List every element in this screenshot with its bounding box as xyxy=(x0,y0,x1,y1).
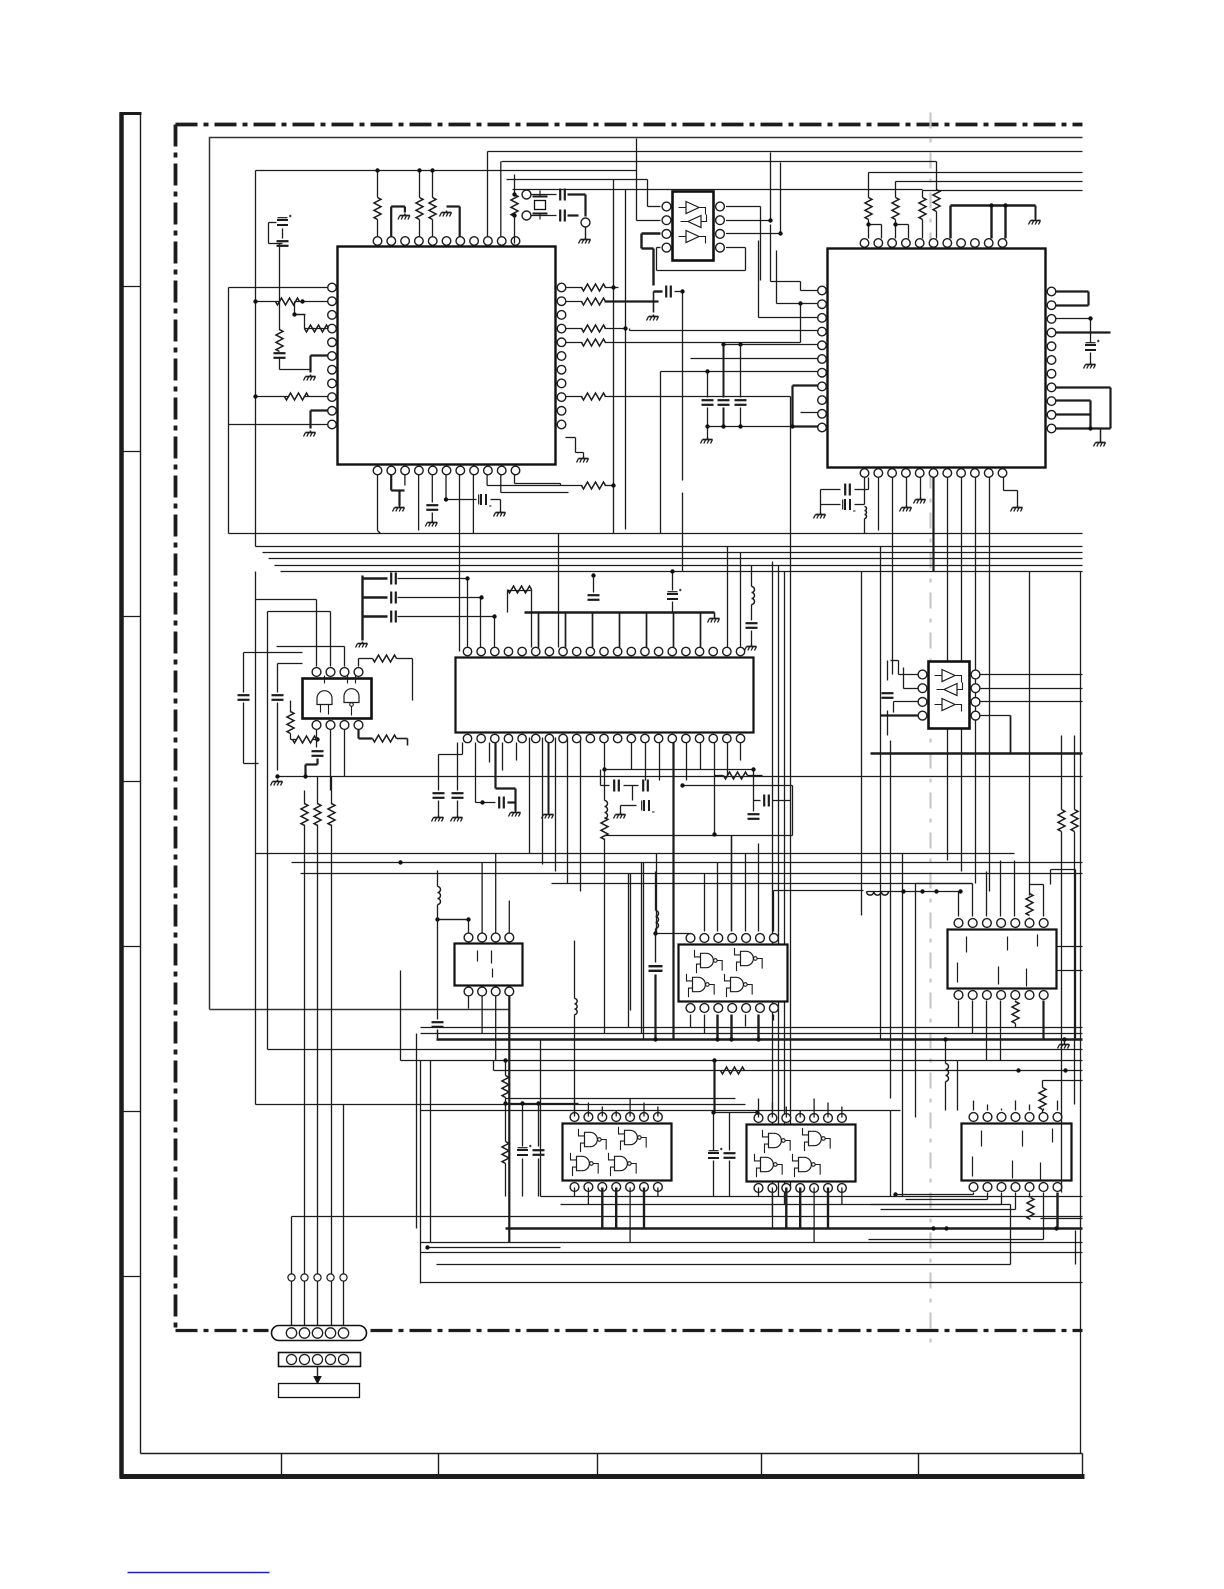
resistor R19 xyxy=(508,586,532,593)
IC U5 body xyxy=(929,662,970,729)
capacitor C25 xyxy=(666,286,671,298)
IC U9 marks xyxy=(958,935,1038,987)
resistor R33 xyxy=(1039,1081,1046,1113)
resistor R11 xyxy=(582,325,626,332)
resistor R37 xyxy=(721,1067,745,1074)
wire xyxy=(481,863,483,933)
wire xyxy=(948,478,990,892)
capacitor C32 xyxy=(724,1113,736,1197)
node xyxy=(1016,1068,1067,1072)
wire xyxy=(728,547,741,648)
ground xyxy=(494,511,506,517)
wire thick xyxy=(932,478,934,572)
wire xyxy=(515,475,561,486)
wire xyxy=(506,1103,579,1105)
test point xyxy=(522,190,531,199)
ground xyxy=(745,645,757,651)
wire xyxy=(799,1188,801,1229)
ground xyxy=(577,457,589,463)
bottom ruler tick 5 xyxy=(918,1454,920,1477)
wire thick xyxy=(716,1015,718,1040)
ground xyxy=(393,506,405,512)
resistor R10 xyxy=(582,298,606,305)
ground xyxy=(542,813,554,819)
wire xyxy=(707,427,709,438)
IC U9 body xyxy=(948,930,1057,989)
wire xyxy=(566,396,583,398)
node xyxy=(943,1037,947,1041)
wire xyxy=(437,905,439,1020)
wire thick xyxy=(757,1015,759,1040)
wire xyxy=(904,668,918,689)
capacitor C30 xyxy=(533,1104,545,1197)
wire xyxy=(691,358,818,360)
node xyxy=(653,931,657,935)
IC U6 top pins xyxy=(312,668,363,677)
wire thick xyxy=(306,759,318,777)
IC U9 top pins xyxy=(954,919,1048,928)
dash-dot frame bottom right xyxy=(371,1329,1083,1332)
wire xyxy=(359,659,373,667)
wire xyxy=(619,613,621,648)
IC U1 left pins xyxy=(328,283,337,429)
wire rail xyxy=(494,1061,1083,1071)
wire xyxy=(773,1015,775,1021)
wire xyxy=(827,1188,829,1229)
wire xyxy=(516,743,518,761)
wire xyxy=(514,175,516,191)
node xyxy=(893,1192,1058,1230)
wire low xyxy=(401,1060,1083,1062)
wire xyxy=(566,287,583,289)
IC U5 left pins xyxy=(918,670,927,720)
wire xyxy=(490,743,503,771)
wire vert xyxy=(542,738,544,865)
wire xyxy=(643,1188,645,1229)
IC U6 gate B xyxy=(344,676,359,716)
node xyxy=(1088,316,1092,320)
wire xyxy=(621,786,637,806)
electrolytic C22 xyxy=(642,800,655,812)
wire cap feed xyxy=(398,616,495,618)
capacitor C36 xyxy=(238,653,303,764)
capacitor C9 xyxy=(821,478,869,496)
IC U5 right pins xyxy=(971,670,980,720)
node xyxy=(611,285,615,289)
wire xyxy=(1004,478,1018,506)
wire xyxy=(936,162,938,191)
page bar tick 3 xyxy=(120,616,141,618)
wire thick xyxy=(508,789,516,811)
wire mid xyxy=(256,853,1015,855)
wire xyxy=(432,171,434,237)
wire xyxy=(785,1188,787,1229)
wire vert xyxy=(636,139,638,171)
wire xyxy=(895,182,897,198)
IC U3 top pins xyxy=(463,647,744,655)
wire xyxy=(295,302,306,315)
wire xyxy=(630,329,818,331)
wire xyxy=(841,1188,843,1205)
wire xyxy=(487,152,489,237)
IC U4 right pins xyxy=(716,202,725,252)
wire xyxy=(1015,1101,1017,1111)
wire xyxy=(713,1161,715,1197)
wire bottom xyxy=(421,1252,1083,1254)
wire xyxy=(269,244,283,331)
wire xyxy=(758,844,760,932)
inductor L3 xyxy=(438,871,441,905)
wire xyxy=(566,342,583,344)
wire xyxy=(468,997,470,1009)
node xyxy=(444,497,448,501)
resistor R22 xyxy=(373,655,413,701)
wire thick xyxy=(1056,292,1089,306)
wire xyxy=(330,730,332,791)
dash-dot frame top xyxy=(176,123,1083,127)
wire thick xyxy=(447,207,460,237)
wire bus xyxy=(229,533,1083,535)
wire thick xyxy=(731,836,733,932)
connector CN2 shell xyxy=(279,1353,361,1367)
wire mid xyxy=(867,891,959,893)
wire thick xyxy=(713,1061,715,1113)
ground xyxy=(647,315,659,321)
node xyxy=(866,222,870,226)
wire thick xyxy=(391,475,404,506)
wire xyxy=(661,372,818,534)
wire xyxy=(708,426,793,428)
resistor R26 xyxy=(301,791,308,826)
node xyxy=(512,192,516,217)
inductor L1 xyxy=(752,566,755,605)
wire mid xyxy=(438,919,469,921)
wire xyxy=(532,195,557,216)
wire thick xyxy=(548,743,550,813)
wire vert xyxy=(228,288,230,534)
wire vert xyxy=(643,863,645,1039)
IC U12 marks xyxy=(973,1129,1053,1181)
wire xyxy=(894,702,918,713)
IC U4 gate A xyxy=(679,202,706,215)
wire xyxy=(785,1107,787,1118)
wire xyxy=(585,228,587,238)
IC U7 mark xyxy=(478,951,493,978)
node xyxy=(465,576,496,618)
wire xyxy=(604,743,606,801)
wire low thick xyxy=(437,1038,1083,1041)
node xyxy=(901,889,962,893)
IC U2 left pins xyxy=(818,286,827,432)
wire thick xyxy=(508,997,510,1243)
resistor R14 xyxy=(582,482,614,489)
capacitor C33 xyxy=(702,372,714,427)
wire rail xyxy=(256,170,637,172)
capacitor C2 xyxy=(560,210,565,222)
wire xyxy=(726,163,781,234)
wire vert xyxy=(1075,870,1077,1041)
wire xyxy=(704,874,706,932)
page bar tick 6 xyxy=(120,1111,141,1113)
wire xyxy=(419,171,421,237)
node xyxy=(253,394,257,398)
wire xyxy=(916,884,973,917)
wire xyxy=(657,1188,659,1197)
ground xyxy=(1094,441,1106,447)
wire xyxy=(957,1061,959,1111)
wire xyxy=(1029,1193,1031,1198)
capacitor C19 xyxy=(499,797,504,809)
resistor R23 xyxy=(287,701,294,740)
IC U11 top pins xyxy=(754,1114,846,1123)
page edge inner line xyxy=(140,113,142,1454)
wire rail xyxy=(896,181,1083,183)
capacitor C27 xyxy=(312,751,324,756)
wire vert xyxy=(772,562,774,1229)
wire xyxy=(726,247,746,249)
wire xyxy=(438,920,469,933)
node xyxy=(715,1037,760,1041)
wire xyxy=(981,674,1083,676)
wire xyxy=(378,475,381,534)
wire vert xyxy=(267,612,269,1050)
wire thick xyxy=(311,356,328,373)
IC U4 body xyxy=(673,192,714,261)
capacitor C37 xyxy=(272,664,303,771)
node xyxy=(480,800,484,804)
wire xyxy=(687,743,701,781)
ground xyxy=(1011,506,1023,512)
wire vert xyxy=(1080,572,1082,1454)
wire xyxy=(981,701,1083,703)
wire xyxy=(629,1188,631,1243)
IC U6 bottom pins xyxy=(312,721,363,730)
IC U10 gate 1 xyxy=(579,1129,607,1152)
wire mid xyxy=(301,873,1083,875)
wire xyxy=(887,661,889,736)
IC U8 body xyxy=(679,945,788,1002)
node xyxy=(503,1058,507,1105)
wire xyxy=(487,475,560,486)
wire xyxy=(643,1103,645,1117)
resistor R1 xyxy=(374,198,381,220)
wire xyxy=(620,806,622,813)
resistor R16 xyxy=(892,198,899,220)
IC U7 body xyxy=(455,944,523,986)
wire thick xyxy=(605,300,659,302)
wire vert xyxy=(613,180,615,534)
wire xyxy=(724,344,818,346)
wire xyxy=(758,1188,760,1197)
wire xyxy=(771,1188,773,1217)
node xyxy=(1088,426,1092,430)
node xyxy=(623,326,627,330)
wire xyxy=(1043,1193,1045,1240)
node xyxy=(611,483,615,487)
wire xyxy=(476,743,496,803)
wire xyxy=(841,1107,843,1118)
IC U10 body xyxy=(563,1124,672,1181)
wire vert xyxy=(567,738,569,884)
IC U6 gate A xyxy=(317,676,332,715)
wire thick xyxy=(793,386,818,427)
wire xyxy=(400,971,402,1061)
wire vert xyxy=(580,738,582,892)
wire thick xyxy=(1056,429,1111,441)
wire xyxy=(986,1001,988,1061)
IC U2 top pins xyxy=(860,239,1007,248)
electrolytic C3 xyxy=(277,215,292,225)
wire xyxy=(690,1015,692,1028)
wire thick xyxy=(951,206,1036,239)
wire bus xyxy=(263,552,1083,554)
wire xyxy=(801,412,818,414)
wire xyxy=(728,743,741,776)
IC U9 bottom pins xyxy=(954,991,1048,1000)
wire vert xyxy=(682,493,684,572)
wire xyxy=(714,743,716,835)
wire cap feed xyxy=(398,597,482,599)
IC U3 body xyxy=(456,658,754,733)
wire mid xyxy=(605,835,793,837)
connector pad ring xyxy=(288,1274,295,1281)
wire xyxy=(377,171,379,237)
wire xyxy=(629,1099,631,1117)
dash-dot frame left xyxy=(174,125,178,1330)
wire xyxy=(714,613,716,617)
resistor R6 xyxy=(305,325,329,332)
dash-dot frame bottom left xyxy=(176,1329,269,1332)
page bar tick 1 xyxy=(120,286,141,288)
ground xyxy=(1084,363,1096,369)
wire rail xyxy=(502,161,937,163)
wire xyxy=(566,328,583,330)
wire bottom thick xyxy=(506,1227,1083,1229)
inductor L9 xyxy=(865,507,867,534)
page bar tick 5 xyxy=(120,946,141,948)
wire cap feed xyxy=(398,578,469,580)
node xyxy=(721,342,742,346)
wire vert xyxy=(630,874,632,1011)
fold line xyxy=(929,113,931,1346)
wire xyxy=(615,1188,617,1229)
wire thick xyxy=(1035,206,1037,219)
wire xyxy=(1057,946,1083,948)
wire xyxy=(1030,885,1044,917)
footer link xyxy=(128,1572,270,1574)
wire thick xyxy=(1056,388,1111,429)
resistor R15 xyxy=(865,198,872,220)
wire rail xyxy=(513,189,923,191)
wire xyxy=(745,1015,747,1027)
wire thick xyxy=(1056,331,1111,333)
resistor R30 xyxy=(1012,1001,1019,1028)
node xyxy=(705,369,709,373)
wire xyxy=(813,1099,815,1118)
wire xyxy=(657,248,746,271)
inductor L7 xyxy=(575,941,578,1113)
wire xyxy=(1056,1193,1058,1229)
wire xyxy=(868,173,870,225)
connector CN2 pins xyxy=(287,1355,349,1365)
wire vert xyxy=(430,1061,432,1243)
wire vert xyxy=(784,572,786,1205)
capacitor C34 xyxy=(718,345,730,427)
wire bottom xyxy=(292,1216,1083,1218)
wire xyxy=(538,613,540,648)
ground xyxy=(814,513,826,519)
wire xyxy=(574,1188,576,1197)
wire xyxy=(1001,1109,1003,1111)
label box xyxy=(279,1384,360,1398)
electrolytic C15 xyxy=(667,572,682,613)
wire low xyxy=(421,1033,1083,1035)
wire thick xyxy=(496,743,516,789)
wire xyxy=(682,786,793,836)
wire xyxy=(540,1040,542,1197)
wire low xyxy=(506,1098,736,1100)
wire xyxy=(986,872,988,917)
wire xyxy=(1043,1109,1045,1111)
ground xyxy=(451,816,463,822)
IC U12 body xyxy=(962,1124,1072,1181)
wire xyxy=(1057,1101,1059,1111)
wire xyxy=(330,612,332,667)
wire xyxy=(426,1247,561,1249)
IC U6 body xyxy=(303,679,372,719)
wire xyxy=(291,739,297,741)
page edge bar xyxy=(120,113,142,1478)
wire xyxy=(958,1001,960,1028)
wire xyxy=(268,611,331,613)
wire vert xyxy=(255,572,257,1105)
resistor R17 xyxy=(919,198,926,239)
wire xyxy=(758,1099,760,1118)
wire xyxy=(628,874,630,1028)
wire xyxy=(256,396,328,398)
resistor R27 xyxy=(314,777,321,826)
wire xyxy=(495,997,497,1061)
wire xyxy=(508,901,510,933)
IC U8 gate 1 xyxy=(695,950,723,973)
connector pad ring xyxy=(301,1274,308,1281)
capacitor C6 xyxy=(426,475,438,521)
IC U10 bottom pins xyxy=(570,1183,662,1192)
capacitor C13 xyxy=(391,611,396,623)
wire xyxy=(657,1107,659,1117)
ground xyxy=(440,211,452,217)
wire xyxy=(890,1111,892,1197)
node xyxy=(893,222,897,226)
capacitor C12 xyxy=(391,592,396,604)
bottom ruler line xyxy=(141,1453,1083,1455)
IC U5 gate A xyxy=(935,670,962,683)
node xyxy=(778,231,782,235)
wire vert xyxy=(790,553,792,1188)
wire xyxy=(481,997,483,1034)
capacitor C26 xyxy=(882,693,894,698)
IC U5 gate B xyxy=(937,683,963,696)
wire xyxy=(317,825,319,1333)
wire xyxy=(896,220,909,239)
node xyxy=(751,767,755,771)
wire bottom xyxy=(421,1282,1083,1284)
IC U8 gate 2 xyxy=(735,948,763,971)
IC U1 right pins xyxy=(557,283,566,429)
wire xyxy=(405,475,419,531)
bottom ruler tick 2 xyxy=(438,1454,440,1477)
capacitor C21 xyxy=(624,780,648,792)
